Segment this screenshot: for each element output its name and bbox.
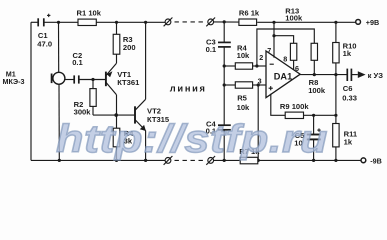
svg-text:МКЭ-3: МКЭ-3 xyxy=(3,77,25,86)
resistor R3 xyxy=(113,22,120,54)
microphone M1 xyxy=(52,72,65,84)
svg-text:линия: линия xyxy=(170,84,207,94)
resistor R5 10k xyxy=(224,82,258,88)
svg-text:6: 6 xyxy=(295,64,299,73)
svg-text:8: 8 xyxy=(283,55,287,64)
resistor R4 10k xyxy=(224,63,257,69)
svg-text:R9 100k: R9 100k xyxy=(280,102,309,111)
svg-text:7: 7 xyxy=(267,46,271,55)
node junction pin3 bus bottom rail xyxy=(257,159,260,162)
node junction pin 3 xyxy=(257,83,260,86)
svg-text:DA1: DA1 xyxy=(274,72,292,82)
label C1 polarity xyxy=(47,14,50,17)
wire bottom rail left section xyxy=(31,159,165,161)
capacitor C1 xyxy=(38,18,44,26)
svg-text:0.33: 0.33 xyxy=(342,94,357,103)
node junction C1/mic on top rail xyxy=(57,21,60,24)
wire pin 4 to R9 xyxy=(271,94,285,116)
node junction R8 output xyxy=(313,73,316,76)
resistor R2 xyxy=(90,80,96,116)
plus sign input 3 xyxy=(269,86,273,90)
node junction C5 bottom rail xyxy=(312,159,315,162)
wire C2 to VT1 base xyxy=(79,79,106,81)
wire mic vertical bottom xyxy=(58,84,60,160)
node junction inverting input pin 2 xyxy=(255,64,258,67)
svg-text:к УЗ: к УЗ xyxy=(368,71,384,80)
transistor VT2 xyxy=(135,99,146,131)
wire bias to R13 xyxy=(274,36,294,44)
wire VT2 emitter to bottom rail xyxy=(145,131,147,161)
capacitor C6 xyxy=(347,69,358,81)
node junction R11 bottom rail xyxy=(334,159,337,162)
transistor VT1 xyxy=(106,63,117,95)
node junction VT2 emitter bottom rail xyxy=(144,159,147,162)
wire pin 3 xyxy=(258,84,266,86)
line break symbol bottom right xyxy=(206,156,215,165)
resistor R7 xyxy=(240,157,258,164)
capacitor C2 xyxy=(74,75,79,83)
resistor R9 xyxy=(285,112,336,118)
node junction mic bottom rail xyxy=(58,159,61,162)
node junction VT2 collector top rail xyxy=(144,21,147,24)
node junction pin7 top rail xyxy=(272,21,275,24)
svg-text:R6 1k: R6 1k xyxy=(239,9,260,18)
wire VT1 collector down xyxy=(116,95,118,128)
node junction C4 bottom rail xyxy=(223,159,226,162)
resistor R8 feedback xyxy=(311,43,317,74)
node junction R9 wire xyxy=(334,114,337,117)
wire VT1 emitter to R3 xyxy=(116,54,118,63)
wire pin 7 supply xyxy=(273,22,275,57)
svg-text:10k: 10k xyxy=(237,103,250,112)
svg-text:100k: 100k xyxy=(285,14,303,23)
svg-text:3: 3 xyxy=(258,76,262,85)
line break symbol top right xyxy=(206,18,215,27)
wire node to VT2 base xyxy=(116,114,134,116)
wire VT2 collector to top rail xyxy=(145,22,147,99)
resistor R6 xyxy=(239,19,257,25)
watermark xyxy=(56,116,387,161)
line break symbol top left xyxy=(164,18,173,27)
wire rail R6 to terminal xyxy=(257,21,355,23)
arrow to amplifier output xyxy=(358,71,366,78)
wire top rail left section xyxy=(31,21,38,23)
minus sign input 2 xyxy=(270,63,274,65)
resistor R4 3k xyxy=(113,128,120,160)
svg-text:2: 2 xyxy=(259,53,263,62)
node junction C3 top rail xyxy=(223,20,226,23)
node junction C5 top xyxy=(312,114,315,117)
terminal -9V xyxy=(361,158,366,163)
wire output node down xyxy=(335,75,337,124)
resistor R11 xyxy=(333,124,339,161)
wire dashed bottom line xyxy=(175,159,207,161)
svg-text:R5: R5 xyxy=(237,93,247,102)
wire bottom rail right section xyxy=(214,159,241,161)
svg-text:C6: C6 xyxy=(343,84,353,93)
wire top rail right section xyxy=(214,21,239,23)
svg-text:R1 10k: R1 10k xyxy=(77,9,102,18)
wire feedback up and across xyxy=(257,29,314,66)
wire R2 bottom to collector node xyxy=(93,114,116,116)
terminal +9V xyxy=(356,20,361,25)
svg-text:100k: 100k xyxy=(308,86,326,95)
wire output xyxy=(300,74,347,76)
line break symbol bottom left xyxy=(164,156,173,165)
resistor R1 xyxy=(78,19,96,25)
svg-text:10k: 10k xyxy=(237,51,250,60)
node junction VT1 collector / VT2 base / R4 xyxy=(114,113,118,117)
node junction R3 top rail xyxy=(115,21,118,24)
wire mic output xyxy=(65,79,74,81)
node junction R10 top rail xyxy=(334,21,337,24)
op-amp DA1 xyxy=(266,51,300,98)
capacitor C3 xyxy=(218,22,231,47)
svg-text:0.1: 0.1 xyxy=(206,45,217,54)
node junction base VT1 / R2 xyxy=(91,78,94,81)
svg-text:300k: 300k xyxy=(74,108,92,117)
wire mic vertical top xyxy=(58,22,60,72)
svg-text:+9В: +9В xyxy=(366,18,379,27)
wire bottom rail to terminal xyxy=(258,159,361,161)
svg-text:0.1: 0.1 xyxy=(72,58,83,67)
capacitor C5 electrolytic xyxy=(307,115,321,160)
node junction bus R5 xyxy=(223,83,226,86)
svg-text:КТ361: КТ361 xyxy=(117,78,140,87)
wire pin 2 xyxy=(257,65,266,67)
node junction bus R4 xyxy=(223,64,226,67)
resistor R10 xyxy=(333,22,339,74)
node junction R4 bottom rail xyxy=(115,159,118,162)
label C5 polarity xyxy=(317,128,320,131)
capacitor C4 xyxy=(218,125,231,160)
wire line bus vertical xyxy=(223,47,225,125)
svg-text:1k: 1k xyxy=(343,49,352,58)
svg-text:200: 200 xyxy=(123,43,136,52)
wire left edge xyxy=(30,22,32,160)
wire dashed top line xyxy=(175,21,207,23)
node junction R10 output xyxy=(334,73,337,76)
wire pin3 node to bottom rail xyxy=(257,85,259,160)
resistor R13 xyxy=(290,43,296,69)
svg-text:47.0: 47.0 xyxy=(37,39,52,48)
node junction bias wire xyxy=(272,34,275,37)
